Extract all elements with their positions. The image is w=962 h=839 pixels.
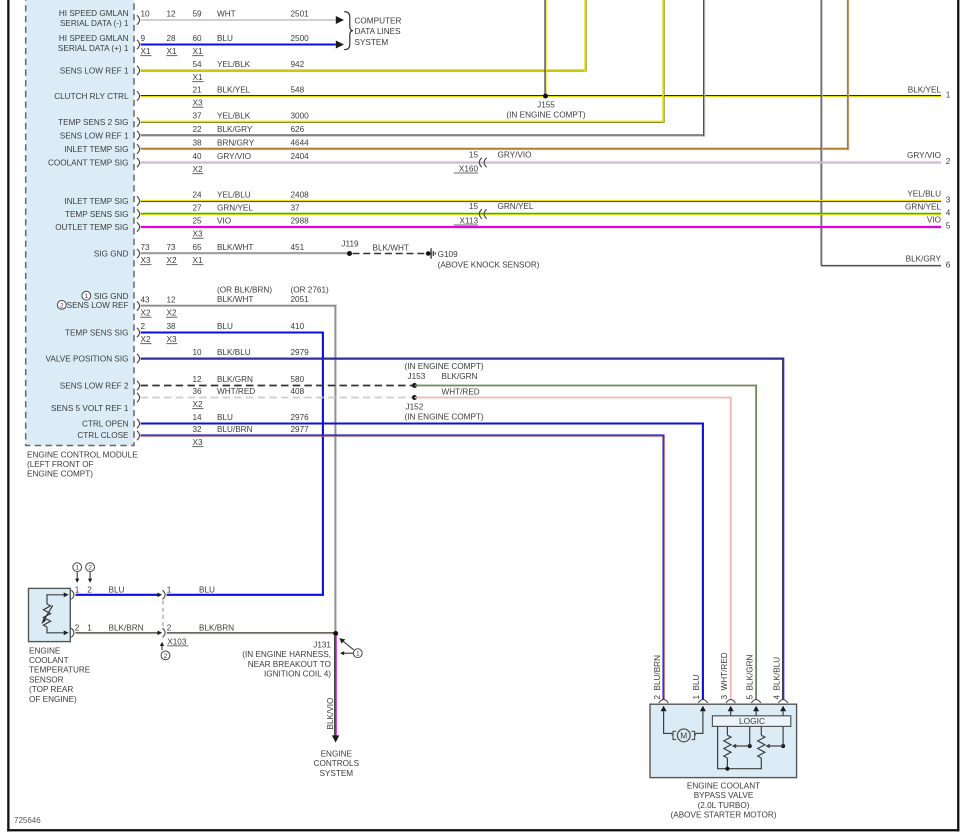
ECM label (2) SENS LOW REF (57, 301, 66, 310)
svg-text:COOLANT TEMP SIG: COOLANT TEMP SIG (48, 158, 129, 167)
svg-text:BLU/BRN: BLU/BRN (653, 655, 662, 691)
svg-text:(OR 2761): (OR 2761) (291, 286, 329, 295)
svg-text:BRN/GRY: BRN/GRY (217, 138, 255, 147)
svg-text:SENS LOW REF 2: SENS LOW REF 2 (60, 382, 129, 391)
svg-text:BLK/GRN: BLK/GRN (217, 375, 253, 384)
svg-text:BLK/YEL: BLK/YEL (217, 85, 251, 94)
svg-text:IGNITION COIL 4): IGNITION COIL 4) (264, 670, 331, 679)
svg-text:(IN ENGINE COMPT): (IN ENGINE COMPT) (405, 412, 484, 421)
svg-text:2976: 2976 (291, 413, 310, 422)
svg-text:ENGINE COOLANT: ENGINE COOLANT (687, 781, 760, 790)
svg-text:4: 4 (946, 208, 951, 217)
svg-text:580: 580 (291, 375, 305, 384)
connector arc pin 12 (137, 381, 140, 390)
svg-text:2: 2 (87, 585, 92, 594)
dashed wire BLK/WHT to G109 (353, 253, 427, 255)
svg-text:TEMP SENS SIG: TEMP SENS SIG (65, 329, 129, 338)
svg-text:3000: 3000 (291, 111, 310, 120)
connector arc pin 54 (137, 66, 140, 75)
svg-text:OF ENGINE): OF ENGINE) (29, 695, 77, 704)
svg-text:4644: 4644 (291, 138, 310, 147)
svg-text:2500: 2500 (291, 34, 310, 43)
page border left (7, 0, 9, 831)
svg-text:(ABOVE KNOCK SENSOR): (ABOVE KNOCK SENSOR) (438, 261, 540, 270)
engine coolant bypass valve box (650, 704, 797, 777)
svg-text:28: 28 (167, 34, 177, 43)
svg-text:2408: 2408 (291, 190, 310, 199)
svg-text:59: 59 (193, 9, 203, 18)
splice J153 (412, 383, 417, 388)
svg-text:408: 408 (291, 387, 305, 396)
svg-text:36: 36 (193, 387, 203, 396)
svg-text:BLK/WHT: BLK/WHT (217, 243, 253, 252)
svg-text:X3: X3 (193, 230, 203, 239)
wire BLK/VIO J131 down to engine controls system (334, 636, 336, 736)
svg-text:BLK/GRY: BLK/GRY (906, 255, 942, 264)
svg-text:(ABOVE STARTER MOTOR): (ABOVE STARTER MOTOR) (671, 811, 777, 820)
dashed wire WHT/RED 408 (SENS 5 VOLT REF 1) (141, 397, 412, 399)
svg-text:X2: X2 (193, 400, 203, 409)
wire BLU 410 (TEMP SENS SIG) (141, 331, 323, 333)
svg-text:ENGINE COMPT): ENGINE COMPT) (27, 470, 93, 479)
svg-text:YEL/BLK: YEL/BLK (217, 60, 251, 69)
svg-text:ENGINE CONTROL MODULE: ENGINE CONTROL MODULE (27, 450, 138, 459)
valve connector arcs (659, 700, 668, 703)
wire BLU 2500 (141, 43, 336, 45)
svg-text:(IN ENGINE HARNESS,: (IN ENGINE HARNESS, (242, 650, 331, 659)
svg-text:22: 22 (193, 125, 203, 134)
svg-text:BLK/WHT: BLK/WHT (373, 243, 409, 252)
svg-text:X3: X3 (167, 335, 177, 344)
svg-text:NEAR BREAKOUT TO: NEAR BREAKOUT TO (248, 660, 331, 669)
connector arc pin 9 (137, 40, 140, 49)
svg-text:451: 451 (291, 243, 305, 252)
svg-text:(OR BLK/BRN): (OR BLK/BRN) (217, 286, 272, 295)
svg-text:2: 2 (75, 623, 80, 632)
svg-text:BLU: BLU (109, 585, 125, 594)
wire GRY/VIO 2404 (COOLANT TEMP SIG) (141, 161, 941, 163)
svg-text:2: 2 (946, 157, 951, 166)
svg-text:X3: X3 (193, 438, 203, 447)
connector arc pin 2 (137, 328, 140, 337)
in-line connector X103 (163, 590, 166, 599)
svg-text:X2: X2 (141, 309, 151, 318)
svg-text:GRY/VIO: GRY/VIO (217, 152, 251, 161)
svg-text:1: 1 (75, 585, 80, 594)
connector arc pin 14 (137, 419, 140, 428)
svg-text:WHT/RED: WHT/RED (720, 652, 729, 690)
connector arc pin 32 (137, 431, 140, 440)
dashed wire BLK/GRN 580 (SENS LOW REF 2) (141, 385, 412, 387)
arrow to computer data lines (WHT) (336, 16, 344, 24)
svg-text:SENS LOW REF 1: SENS LOW REF 1 (60, 67, 129, 76)
logic left drop to bottom rail (717, 726, 719, 769)
svg-text:M: M (680, 731, 687, 741)
svg-text:2: 2 (164, 653, 168, 660)
svg-text:37: 37 (193, 111, 203, 120)
engine coolant temperature sensor box (29, 588, 71, 641)
svg-text:SIG GND: SIG GND (94, 249, 129, 258)
svg-text:BLK/YEL: BLK/YEL (908, 86, 942, 95)
svg-text:GRN/YEL: GRN/YEL (498, 202, 534, 211)
svg-text:WHT: WHT (217, 9, 236, 18)
svg-text:2977: 2977 (291, 425, 310, 434)
svg-text:BYPASS VALVE: BYPASS VALVE (694, 791, 754, 800)
svg-text:X113: X113 (459, 216, 478, 225)
wire BLU 2976 (CTRL OPEN) (141, 422, 704, 424)
svg-text:VIO: VIO (927, 216, 941, 225)
svg-text:J152: J152 (406, 403, 424, 412)
svg-text:TEMPERATURE: TEMPERATURE (29, 666, 91, 675)
svg-text:1: 1 (356, 651, 360, 658)
svg-text:725646: 725646 (14, 816, 41, 825)
svg-text:12: 12 (167, 9, 177, 18)
wire VIO 2988 (OUTLET TEMP SIG) (141, 226, 941, 228)
ECM connector box (Engine Control Module) (26, 0, 134, 446)
svg-text:6: 6 (946, 260, 951, 269)
svg-text:BLK/BLU: BLK/BLU (772, 657, 781, 691)
svg-text:73: 73 (141, 243, 151, 252)
svg-text:1: 1 (692, 695, 701, 700)
svg-text:X1: X1 (167, 47, 177, 56)
svg-text:SERIAL DATA (-) 1: SERIAL DATA (-) 1 (60, 19, 129, 28)
svg-text:VIO: VIO (217, 216, 231, 225)
svg-text:SENS LOW REF: SENS LOW REF (67, 301, 129, 310)
svg-text:X1: X1 (193, 47, 203, 56)
svg-text:15: 15 (469, 202, 479, 211)
svg-text:CONTROLS: CONTROLS (314, 759, 360, 768)
connector arc pin 10 (137, 15, 140, 24)
svg-text:ENGINE: ENGINE (29, 646, 61, 655)
wire BLK/BLU 2979 (VALVE POSITION SIG) (141, 357, 784, 359)
svg-text:X1: X1 (193, 73, 203, 82)
wire BLK/WHT 2051 (SIG GND / SENS LOW REF) (141, 305, 337, 307)
svg-text:942: 942 (291, 60, 305, 69)
callout circled 1 and 2 above sensor pins (73, 563, 82, 572)
wire BLK/YEL 548 (CLUTCH RLY CTRL) (141, 95, 941, 97)
svg-text:WHT/RED: WHT/RED (442, 387, 480, 396)
svg-text:YEL/BLU: YEL/BLU (907, 190, 941, 199)
svg-text:12: 12 (193, 375, 203, 384)
in-line connector X113 (479, 209, 482, 219)
svg-text:SENS 5 VOLT REF 1: SENS 5 VOLT REF 1 (51, 404, 129, 413)
wire BLK/GRY from top to off-page 6 (820, 0, 822, 265)
ground G109 (ABOVE KNOCK SENSOR) (426, 251, 431, 256)
connector arc pin 24 (137, 196, 140, 205)
svg-text:BLU: BLU (692, 674, 701, 690)
wire BLK/BRN X103 to J131 (167, 631, 334, 633)
ECM label (1) SIG GND (82, 291, 91, 300)
svg-text:2: 2 (167, 623, 172, 632)
svg-text:J131: J131 (313, 640, 331, 649)
wire BLK/GRN solid to valve (415, 385, 758, 387)
svg-text:X2: X2 (193, 165, 203, 174)
svg-text:1: 1 (84, 293, 88, 300)
svg-text:5: 5 (946, 221, 951, 230)
feedback potentiometer R2 (760, 726, 762, 735)
svg-text:CTRL OPEN: CTRL OPEN (82, 419, 129, 428)
svg-text:ENGINE: ENGINE (321, 749, 353, 758)
svg-text:3: 3 (720, 695, 729, 700)
svg-text:9: 9 (141, 34, 146, 43)
in-line connector X160 (479, 158, 482, 168)
svg-text:27: 27 (193, 203, 203, 212)
svg-text:GRN/YEL: GRN/YEL (217, 203, 253, 212)
svg-text:73: 73 (167, 243, 177, 252)
wire BLU/BRN 2977 (CTRL CLOSE) (141, 434, 665, 436)
svg-text:CLUTCH RLY CTRL: CLUTCH RLY CTRL (54, 92, 129, 101)
svg-text:1: 1 (946, 90, 951, 99)
svg-text:65: 65 (193, 243, 203, 252)
svg-text:(LEFT FRONT OF: (LEFT FRONT OF (27, 460, 94, 469)
svg-text:2979: 2979 (291, 348, 310, 357)
svg-text:HI SPEED GMLAN: HI SPEED GMLAN (59, 9, 129, 18)
wire GRN/YEL 37 (TEMP SENS SIG) (141, 213, 941, 215)
svg-text:626: 626 (291, 125, 305, 134)
wire BLK/GRY 626 (SENS LOW REF 1) (141, 134, 705, 136)
svg-text:BLK/GRN: BLK/GRN (442, 372, 478, 381)
svg-text:21: 21 (193, 85, 203, 94)
connector arc pin 73 (137, 249, 140, 258)
svg-text:32: 32 (193, 425, 203, 434)
svg-text:10: 10 (193, 348, 203, 357)
svg-text:J119: J119 (341, 239, 359, 248)
svg-text:40: 40 (193, 152, 203, 161)
svg-text:BLK/BLU: BLK/BLU (217, 348, 251, 357)
svg-text:37: 37 (291, 203, 301, 212)
svg-text:X2: X2 (167, 309, 177, 318)
wire WHT 2501 (141, 19, 336, 21)
svg-text:43: 43 (141, 295, 151, 304)
splice J155 (543, 94, 548, 99)
svg-text:3: 3 (946, 195, 951, 204)
connector arc pin 27 (137, 209, 140, 218)
connector arc pin 36 (137, 393, 140, 402)
svg-text:YEL/BLK: YEL/BLK (217, 111, 251, 120)
svg-text:WHT/RED: WHT/RED (217, 387, 255, 396)
wire BLU sensor to connector X103 (76, 594, 158, 596)
svg-text:GRN/YEL: GRN/YEL (905, 203, 941, 212)
splice J119 (347, 251, 352, 256)
svg-text:SYSTEM: SYSTEM (319, 769, 353, 778)
svg-text:INLET TEMP SIG: INLET TEMP SIG (64, 197, 128, 206)
svg-text:VALVE POSITION SIG: VALVE POSITION SIG (46, 355, 129, 364)
arrow to computer data lines (BLU) (336, 41, 344, 49)
svg-text:38: 38 (167, 322, 177, 331)
connector arc pin 37 (137, 117, 140, 126)
svg-text:548: 548 (291, 85, 305, 94)
connector arc pin 10 (137, 354, 140, 363)
svg-text:TEMP SENS 2 SIG: TEMP SENS 2 SIG (58, 118, 128, 127)
valve pin 1 arrow and motor lead (700, 706, 706, 712)
svg-text:X1: X1 (141, 47, 151, 56)
page border bottom (7, 829, 959, 831)
svg-text:G109: G109 (438, 250, 458, 259)
svg-text:X2: X2 (141, 335, 151, 344)
svg-text:YEL/BLU: YEL/BLU (217, 190, 251, 199)
svg-text:(TOP REAR: (TOP REAR (29, 685, 73, 694)
svg-text:(2.0L TURBO): (2.0L TURBO) (698, 801, 750, 810)
svg-text:24: 24 (193, 190, 203, 199)
svg-text:1: 1 (87, 623, 92, 632)
svg-text:25: 25 (193, 216, 203, 225)
svg-text:38: 38 (193, 138, 203, 147)
svg-text:HI SPEED GMLAN: HI SPEED GMLAN (59, 34, 129, 43)
svg-text:60: 60 (193, 34, 203, 43)
svg-text:2051: 2051 (291, 295, 310, 304)
valve pin 2 arrow and motor lead (661, 706, 667, 712)
svg-text:BLU: BLU (217, 34, 233, 43)
page border right (957, 0, 959, 831)
wire BLK/WHT 451 (SIG GND) (141, 252, 350, 254)
callout circled 1 at J131 (353, 649, 362, 658)
svg-text:2: 2 (653, 695, 662, 700)
svg-text:2501: 2501 (291, 9, 310, 18)
splice J152 (412, 395, 417, 400)
svg-text:1: 1 (167, 585, 172, 594)
LOGIC block (712, 716, 790, 727)
connector arc pin 25 (137, 222, 140, 231)
svg-text:COOLANT: COOLANT (29, 656, 69, 665)
svg-text:OUTLET TEMP SIG: OUTLET TEMP SIG (55, 223, 128, 232)
svg-text:BLK/BRN: BLK/BRN (109, 623, 144, 632)
svg-text:(IN ENGINE COMPT): (IN ENGINE COMPT) (506, 111, 585, 120)
svg-text:BLK/BRN: BLK/BRN (199, 623, 234, 632)
sensor connector arcs (71, 590, 74, 599)
svg-text:2: 2 (88, 565, 92, 572)
valve pin 4 arrow (780, 706, 786, 712)
motor M (677, 729, 690, 742)
connector arc pin 40 (137, 158, 140, 167)
callout circled 2 below X103 (161, 646, 163, 651)
svg-text:BLK/WHT: BLK/WHT (217, 295, 253, 304)
svg-text:54: 54 (193, 60, 203, 69)
svg-text:X160: X160 (459, 164, 479, 173)
svg-text:14: 14 (193, 413, 203, 422)
brace to COMPUTER DATA LINES SYSTEM (344, 12, 353, 50)
svg-text:2988: 2988 (291, 216, 310, 225)
svg-text:X3: X3 (141, 256, 151, 265)
svg-text:J153: J153 (408, 372, 426, 381)
svg-text:BLK/VIO: BLK/VIO (326, 698, 335, 730)
svg-text:SIG GND: SIG GND (94, 292, 129, 301)
connector arc pin 22 (137, 131, 140, 140)
connector arc pin 38 (137, 144, 140, 153)
svg-text:2: 2 (60, 302, 64, 309)
svg-text:X2: X2 (167, 256, 177, 265)
wire BRN/GRY 4644 (INLET TEMP SIG) (141, 148, 849, 150)
wire WHT/RED solid to valve (415, 397, 732, 399)
svg-text:SENSOR: SENSOR (29, 675, 64, 684)
svg-text:BLU: BLU (217, 322, 233, 331)
wire YEL/BLU 2408 (INLET TEMP SIG) (141, 200, 941, 202)
svg-text:DATA LINES: DATA LINES (355, 27, 402, 36)
svg-text:X1: X1 (193, 256, 203, 265)
rail junction dot (725, 767, 729, 771)
wire YEL/BLK 942 (SENS LOW REF 1) (141, 69, 587, 71)
svg-text:2: 2 (141, 322, 146, 331)
svg-text:BLU: BLU (217, 413, 233, 422)
svg-text:15: 15 (469, 151, 479, 160)
valve pin 3 arrow (728, 706, 734, 712)
valve pin 5 arrow (753, 706, 759, 712)
svg-text:INLET TEMP SIG: INLET TEMP SIG (64, 145, 128, 154)
sensor internal thermistor (47, 594, 64, 596)
svg-text:J155: J155 (537, 100, 555, 109)
connector arc pin 43 (137, 301, 140, 310)
R2 wiper (781, 744, 785, 748)
svg-text:BLK/GRN: BLK/GRN (745, 654, 754, 690)
svg-text:5: 5 (745, 695, 754, 700)
svg-text:CTRL CLOSE: CTRL CLOSE (77, 431, 129, 440)
svg-text:410: 410 (291, 322, 305, 331)
svg-text:COMPUTER: COMPUTER (355, 16, 402, 25)
svg-text:BLU/BRN: BLU/BRN (217, 425, 253, 434)
svg-text:BLU: BLU (199, 585, 215, 594)
svg-text:X103: X103 (167, 637, 187, 646)
svg-text:(IN ENGINE COMPT): (IN ENGINE COMPT) (405, 362, 484, 371)
svg-text:10: 10 (141, 9, 151, 18)
wire BLK/BRN sensor to connector X103 (76, 631, 158, 633)
svg-text:SENS LOW REF 1: SENS LOW REF 1 (60, 132, 129, 141)
svg-text:TEMP SENS SIG: TEMP SENS SIG (65, 210, 129, 219)
feedback potentiometer R1 (726, 726, 728, 735)
svg-text:X3: X3 (193, 99, 203, 108)
wire YEL/BLK 3000 (TEMP SENS 2 SIG) (141, 121, 665, 123)
svg-text:SERIAL DATA (+) 1: SERIAL DATA (+) 1 (58, 44, 129, 53)
connector arc pin 21 (137, 91, 140, 100)
splice J131 (333, 631, 338, 636)
svg-text:GRY/VIO: GRY/VIO (907, 151, 941, 160)
arrow down to engine controls system (332, 735, 339, 742)
svg-text:2404: 2404 (291, 152, 310, 161)
svg-text:SYSTEM: SYSTEM (355, 38, 389, 47)
svg-text:LOGIC: LOGIC (739, 716, 765, 726)
svg-text:BLK/GRY: BLK/GRY (217, 125, 253, 134)
svg-text:1: 1 (75, 565, 79, 572)
R1 wiper (748, 744, 752, 748)
svg-text:GRY/VIO: GRY/VIO (498, 151, 532, 160)
svg-text:12: 12 (167, 295, 177, 304)
svg-text:4: 4 (772, 695, 781, 700)
